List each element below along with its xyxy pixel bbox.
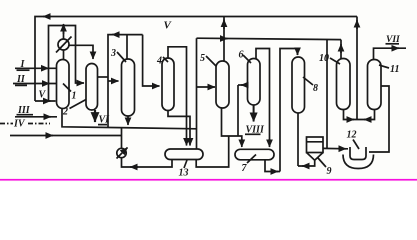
stream III <box>15 116 57 118</box>
stream VI arrow <box>94 110 96 122</box>
condenser K1 <box>58 39 69 50</box>
wire drum 13 bottom to drum 7 junction <box>196 136 229 167</box>
wire condenser to column 2 feed <box>76 45 85 83</box>
wire column 6 side draw <box>241 84 248 86</box>
column 2 <box>86 64 98 111</box>
svg-text:V: V <box>39 90 47 101</box>
wire top recycle line V <box>35 17 357 102</box>
wire drum 7 outlet up to column 8 <box>265 160 280 172</box>
svg-text:12: 12 <box>347 130 357 141</box>
wire feed to column 4 <box>143 35 160 86</box>
svg-text:13: 13 <box>179 168 189 179</box>
svg-text:11: 11 <box>390 64 399 75</box>
wire feed to column 3 <box>97 76 108 78</box>
drum 13 <box>165 149 203 160</box>
stream I <box>15 67 56 69</box>
wire column 1 bottoms header <box>62 109 197 129</box>
svg-text:1: 1 <box>72 91 77 102</box>
wire condenser up arrow <box>63 26 65 40</box>
wire column 5 bottom to drum 7 <box>222 108 242 140</box>
column 11 <box>368 60 382 110</box>
column 1 <box>57 60 70 109</box>
svg-text:II: II <box>16 74 26 85</box>
column 4 <box>162 58 174 111</box>
wire riser from columns 10/11 bottoms up to line V <box>356 17 358 120</box>
wire long line y37 to column 10 <box>197 38 342 39</box>
stream IV dash-dot <box>0 123 13 125</box>
svg-text:7: 7 <box>242 163 248 174</box>
wire line y35 over column 3 <box>108 35 143 77</box>
wire column 4 overhead to drum 13 <box>168 47 187 139</box>
column 10 <box>337 59 351 110</box>
column 8 <box>292 57 305 113</box>
condenser box top <box>49 26 76 102</box>
svg-text:6: 6 <box>239 50 244 61</box>
column 3 <box>122 59 135 116</box>
wire column 6 overhead to drum 7 <box>256 49 270 141</box>
column 6 <box>248 59 261 106</box>
stream VIII arrow <box>253 105 255 122</box>
wire columns 10/11 bottoms <box>344 110 375 120</box>
wire column 5 overhead riser to line V <box>223 17 225 62</box>
svg-text:IV: IV <box>13 119 26 130</box>
svg-text:10: 10 <box>319 53 329 64</box>
svg-text:III: III <box>17 105 31 116</box>
furnace 12 <box>350 147 366 160</box>
wire evaporator 9 to furnace 12 <box>323 147 348 149</box>
wire header to pump <box>121 128 123 149</box>
svg-text:4: 4 <box>156 56 162 67</box>
svg-text:3: 3 <box>110 48 116 59</box>
pump P1 <box>117 148 126 157</box>
evaporator 9 <box>307 137 324 153</box>
svg-text:VII: VII <box>386 35 400 45</box>
wire branch line to separator 9 <box>326 39 328 148</box>
stream II <box>13 83 56 85</box>
stream IV line <box>10 135 122 137</box>
wire feed to column 5 <box>196 38 198 149</box>
wire column 11 side to furnace 12 <box>369 86 389 152</box>
wire column 1 overhead to condenser <box>63 50 65 60</box>
wire column 4 bottom to drum 13 <box>168 111 190 139</box>
wire pump bottom to drum 13 bottom <box>122 158 173 168</box>
svg-text:2: 2 <box>62 107 68 118</box>
svg-text:8: 8 <box>313 83 318 94</box>
magenta rule <box>0 179 417 181</box>
svg-text:9: 9 <box>327 166 332 177</box>
svg-text:V: V <box>164 20 173 32</box>
svg-text:5: 5 <box>200 53 205 64</box>
node V label <box>35 100 56 102</box>
wire column 3 bottom to header <box>127 116 129 125</box>
drum 7 <box>235 149 274 160</box>
column 5 <box>216 61 229 108</box>
stream VII <box>374 48 407 59</box>
wire arrow on line V pointing left <box>43 16 51 18</box>
wire column 8 bottom to evaporator 9 <box>297 113 299 166</box>
wire column 3 overhead riser <box>126 35 128 59</box>
wire condenser outlet to column 2 top <box>69 45 93 59</box>
